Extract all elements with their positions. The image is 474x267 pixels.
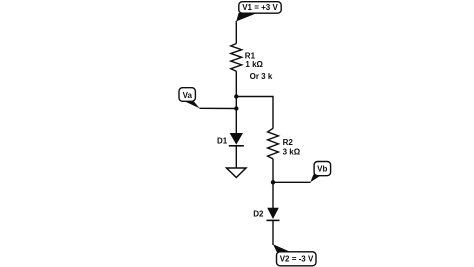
node Va junction dot [234,106,238,110]
svg-text:Vb: Vb [317,165,327,174]
node A junction dot [234,94,238,98]
resistor R1 [231,44,242,72]
wire node to Vb callout [273,181,311,183]
wire D2 to V2 [272,220,274,245]
diode D1 [229,133,244,146]
callout V2 = -3 V [273,244,316,266]
svg-text:Va: Va [183,91,193,100]
wire node A to R2 branch [236,97,273,129]
node Vb junction dot [271,180,275,184]
ground [227,168,247,178]
svg-text:V1 = +3 V: V1 = +3 V [242,3,278,12]
svg-text:D2: D2 [253,210,264,219]
wire R1 to node A [235,71,237,133]
wire D1 to ground [235,146,237,168]
diode D2 [267,208,280,221]
svg-text:D1: D1 [217,136,228,145]
svg-text:3 kΩ: 3 kΩ [283,148,301,157]
callout Va [179,88,200,109]
callout V1 = +3 V [236,2,281,22]
resistor R2 [268,128,279,159]
wire V1 to R1 [235,21,237,44]
svg-text:1 kΩ: 1 kΩ [245,60,263,69]
svg-text:R2: R2 [283,138,294,147]
wire Va callout to node [200,107,237,109]
wire R2 to D2 [272,159,274,208]
svg-text:R1: R1 [245,51,256,60]
callout Vb [310,162,330,183]
svg-text:V2 = -3 V: V2 = -3 V [280,254,314,263]
svg-text:Or 3 k: Or 3 k [250,72,273,81]
